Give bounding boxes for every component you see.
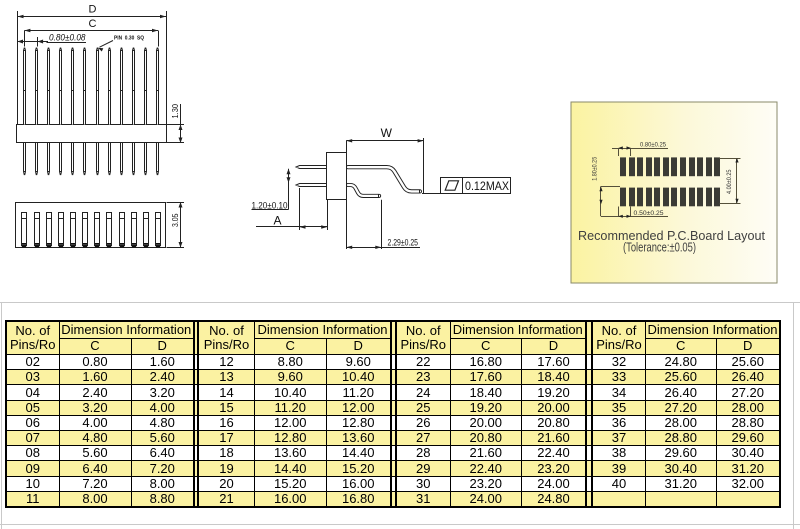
svg-text:0.80±0.08: 0.80±0.08 xyxy=(49,32,86,42)
svg-text:0.50±0.25: 0.50±0.25 xyxy=(634,210,664,217)
svg-text:1.80±0.25: 1.80±0.25 xyxy=(593,156,599,181)
svg-text:W: W xyxy=(381,126,393,140)
svg-text:3.05: 3.05 xyxy=(171,213,180,227)
svg-text:0.12MAX: 0.12MAX xyxy=(465,179,509,193)
svg-text:0.80±0.25: 0.80±0.25 xyxy=(640,142,666,149)
svg-text:A: A xyxy=(273,214,281,228)
svg-text:C: C xyxy=(89,18,97,30)
svg-text:D: D xyxy=(89,4,97,16)
svg-text:PIN 0.30 SQ: PIN 0.30 SQ xyxy=(114,36,145,42)
svg-text:1.30: 1.30 xyxy=(171,103,180,118)
svg-text:1.20±0.10: 1.20±0.10 xyxy=(252,200,288,210)
svg-text:2.29±0.25: 2.29±0.25 xyxy=(388,237,419,247)
svg-text:4.00±0.25: 4.00±0.25 xyxy=(727,169,733,194)
svg-text:(Tolerance:±0.05): (Tolerance:±0.05) xyxy=(623,239,696,254)
